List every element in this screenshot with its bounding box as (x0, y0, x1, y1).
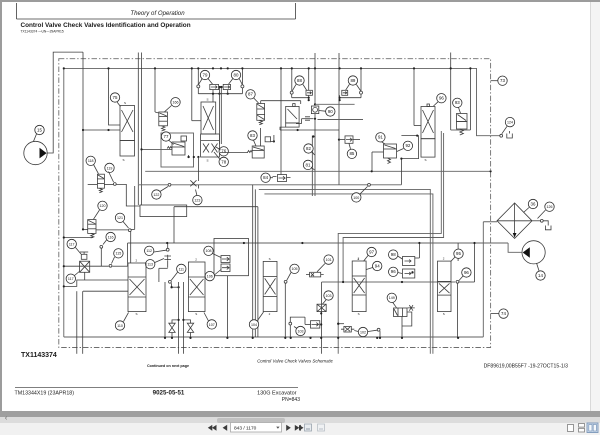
pilot box 118 (88, 183, 98, 185)
drop x76 (76, 291, 78, 354)
svg-text:106: 106 (207, 275, 213, 279)
svg-text:84: 84 (263, 175, 268, 180)
stub (291, 94, 293, 98)
top feed line (64, 68, 500, 135)
svg-text:89: 89 (350, 78, 355, 83)
junction (218, 93, 220, 95)
junction (219, 86, 221, 88)
junction (178, 319, 180, 321)
drop (197, 157, 199, 181)
callout 81 (303, 160, 312, 169)
stub (227, 90, 229, 94)
svg-text:83: 83 (250, 133, 255, 138)
svg-text:PN=843: PN=843 (282, 397, 300, 403)
stub (338, 323, 344, 325)
link (260, 128, 262, 146)
feed y291 (83, 290, 128, 292)
long line x281 (280, 68, 282, 174)
orifice bars (305, 117, 310, 120)
svg-text:74: 74 (501, 311, 506, 316)
callout 89 (348, 76, 357, 85)
junction (337, 323, 339, 325)
leader 110 (124, 313, 129, 322)
callout 111 (177, 264, 186, 273)
port (456, 280, 459, 283)
check valve 102 (341, 326, 354, 332)
junction (82, 129, 84, 131)
box top line (315, 103, 355, 105)
base line 88 (292, 97, 309, 99)
leader 103 (323, 300, 327, 304)
orifice X 123 (190, 180, 196, 186)
callout 108 (204, 246, 213, 255)
svg-text:S: S (136, 312, 138, 316)
svg-text:111: 111 (179, 267, 184, 271)
callout 73 (498, 76, 507, 85)
callout 102 (358, 327, 367, 336)
leader 124 (502, 126, 507, 134)
svg-text:95: 95 (456, 251, 461, 256)
svg-text:82: 82 (306, 146, 311, 151)
drain line (469, 68, 471, 130)
nested work line C (259, 189, 431, 353)
leader 121 (123, 222, 129, 229)
svg-text:103: 103 (298, 329, 304, 333)
junction (314, 118, 316, 120)
long line y184.8 (139, 184, 402, 186)
svg-text:Theory of Operation: Theory of Operation (130, 10, 185, 17)
callout 90 (326, 107, 335, 116)
feed y266 b (112, 265, 127, 267)
check A feed (172, 320, 179, 323)
riser x127 (127, 243, 129, 266)
callout 77 (161, 132, 170, 141)
line to motor (508, 243, 522, 252)
svg-text:130G Excavator: 130G Excavator (257, 391, 297, 397)
callout 119 (105, 163, 114, 172)
check valve A (169, 323, 175, 332)
page bottom divider bar (0, 411, 600, 417)
svg-text:2: 2 (443, 257, 445, 261)
horizontal scrollbar track (0, 417, 600, 423)
svg-text:2: 2 (195, 258, 197, 262)
leader 73 (491, 80, 498, 82)
leader 82 (312, 151, 315, 155)
pilot valve 91 (384, 144, 397, 158)
junction (308, 99, 310, 101)
check valve B (187, 323, 193, 332)
callout 118 (86, 156, 95, 165)
svg-text:98: 98 (391, 252, 396, 257)
spool valve 97 (352, 261, 366, 312)
junction (320, 323, 322, 325)
svg-text:15: 15 (37, 127, 42, 132)
callout 123 (193, 195, 202, 204)
junction (469, 67, 471, 69)
port (100, 245, 103, 248)
callout 103 (296, 326, 305, 335)
base line 89 (340, 97, 361, 99)
leader 91 (382, 142, 386, 144)
leader 85 (349, 144, 351, 149)
reducing valve 118 (97, 174, 104, 188)
stub (379, 331, 381, 338)
junction on tank line (164, 337, 166, 339)
toolbar: prev view icon (305, 424, 312, 431)
main envelope box (63, 68, 65, 337)
junction (63, 285, 65, 287)
junction (337, 323, 339, 325)
callout 166 (171, 98, 180, 107)
pilot line vertical A (137, 53, 139, 185)
leader 94 (366, 268, 372, 270)
callout 110 (115, 321, 124, 330)
svg-text:TX1143374: TX1143374 (21, 352, 57, 359)
junction (227, 93, 229, 95)
toolbar: prev page button (223, 425, 228, 431)
svg-text:117: 117 (69, 242, 75, 246)
leader 116 (103, 240, 107, 245)
junction (291, 67, 293, 69)
svg-text:103: 103 (326, 294, 332, 298)
scrollbar left button (2, 415, 10, 423)
elbow (414, 125, 421, 127)
relief valve 93 (457, 114, 468, 130)
drop x285 (284, 283, 286, 338)
leader 81 (311, 167, 315, 170)
junction (220, 67, 222, 69)
link (159, 267, 168, 269)
spool valve 104 (263, 261, 277, 311)
drop line x321 (321, 282, 323, 354)
line y130 mid (280, 129, 339, 131)
solenoid valve 166 (159, 112, 168, 126)
leader 78 (214, 152, 221, 160)
junction (212, 67, 214, 69)
junction (280, 67, 282, 69)
pilot manifold box (140, 205, 187, 217)
box around 91 (401, 136, 418, 185)
callout 94 (373, 261, 382, 270)
port (168, 183, 171, 186)
stub (167, 261, 169, 268)
shuttle valve 101 (306, 272, 324, 277)
junction (197, 156, 199, 158)
callout 87 (246, 90, 255, 99)
svg-text:85: 85 (349, 151, 354, 156)
junction (371, 170, 373, 172)
svg-text:TX1143374 —UN—29APR15: TX1143374 —UN—29APR15 (21, 30, 64, 34)
spool valve 110 (128, 263, 146, 312)
callout 112 (145, 246, 154, 255)
junction (339, 67, 341, 69)
junction (450, 67, 452, 69)
feed y266 a (64, 265, 109, 267)
leader 126 (538, 210, 546, 219)
check 106 (221, 264, 230, 272)
callout 149 (387, 293, 396, 302)
port (284, 280, 287, 283)
svg-text:115: 115 (116, 252, 122, 256)
leader 77 (169, 140, 174, 145)
link (83, 228, 88, 230)
check assembly 89 (342, 84, 363, 95)
long return line y171 (145, 170, 490, 172)
viewer top edge strip (0, 0, 600, 2)
filter 117 (80, 261, 90, 272)
solenoid 99 (403, 269, 415, 278)
callout 106 (205, 271, 214, 280)
junction (193, 156, 195, 158)
svg-text:113: 113 (147, 263, 153, 267)
line x414 (413, 68, 415, 125)
svg-text:88: 88 (297, 78, 302, 83)
link to spool top (212, 94, 214, 102)
riser x101 (100, 248, 102, 266)
toolbar: page field (231, 423, 282, 433)
pilot line to arm valve (261, 100, 301, 102)
check assembly 80 (223, 79, 244, 90)
leader 117a (76, 248, 82, 255)
junction (243, 242, 245, 244)
solenoid 98 (403, 257, 415, 266)
riser x474 (474, 243, 476, 282)
leader 105 (287, 273, 291, 281)
svg-text:112: 112 (146, 249, 152, 253)
link to tank (543, 221, 548, 226)
junction (301, 242, 303, 244)
junction (82, 228, 84, 230)
drop x308 (308, 68, 310, 90)
callout 96 (389, 267, 398, 276)
svg-text:96: 96 (439, 96, 444, 101)
junction (308, 67, 310, 69)
junction (171, 286, 173, 288)
spring 91 (388, 158, 391, 164)
svg-text:118: 118 (88, 159, 94, 163)
stub (301, 119, 303, 124)
stub (197, 88, 199, 94)
leader 117b (75, 272, 80, 276)
line to port 121 (96, 229, 128, 231)
box line (318, 119, 364, 121)
drain line (450, 53, 452, 131)
junction (107, 129, 109, 131)
callout 122 (152, 190, 161, 199)
check assembly 79 (197, 79, 219, 90)
svg-text:DF89619,00B55F7 -19-27OCT15-1/: DF89619,00B55F7 -19-27OCT15-1/3 (484, 363, 569, 369)
svg-text:93: 93 (455, 100, 460, 105)
riser 121 (134, 186, 136, 229)
junction on tank line (189, 337, 191, 339)
svg-text:843 / 1170: 843 / 1170 (234, 426, 257, 432)
svg-text:S: S (195, 312, 197, 316)
stub (167, 243, 169, 248)
junction (182, 319, 184, 321)
junction (197, 67, 199, 69)
callout 117 (67, 239, 76, 248)
drop x178 (178, 282, 180, 354)
junction (360, 67, 362, 69)
check cross 103 (317, 304, 326, 311)
line to valve 166 (154, 68, 156, 112)
drain link (451, 129, 471, 131)
svg-text:75: 75 (113, 95, 118, 100)
junction (220, 86, 222, 88)
junction (63, 236, 65, 238)
solenoid valve 87 (257, 104, 265, 121)
leader 102 (354, 331, 358, 332)
link to diamond (483, 221, 497, 223)
viewer left edge strip (0, 0, 2, 412)
leader 107 (204, 313, 209, 322)
port (128, 229, 131, 232)
stub (360, 94, 362, 98)
junction (418, 242, 420, 244)
check valve 102a (311, 321, 320, 328)
stub (296, 123, 302, 125)
junction (154, 67, 156, 69)
port (368, 183, 371, 186)
callout 78 (219, 157, 228, 166)
svg-text:117: 117 (68, 277, 74, 281)
spring 83 (247, 151, 252, 153)
stub (197, 185, 199, 189)
callout 92 (403, 141, 412, 150)
svg-text:101: 101 (326, 258, 332, 262)
junction (290, 337, 292, 339)
svg-text:S: S (123, 158, 125, 162)
callout 120 (98, 201, 107, 210)
callout 80 (231, 70, 240, 79)
junction (413, 67, 415, 69)
svg-text:S: S (443, 312, 445, 316)
svg-text:79: 79 (203, 72, 208, 77)
check manifold box (214, 239, 249, 276)
callout 103 (324, 291, 333, 300)
leader 119 (109, 172, 114, 183)
svg-text:149: 149 (389, 296, 395, 300)
junction (312, 135, 314, 137)
drop x165 (164, 282, 166, 338)
junction (400, 158, 402, 160)
leader 74 (491, 313, 499, 315)
leader 92 (397, 149, 404, 152)
long line x315 lower (314, 114, 316, 196)
stub (308, 95, 310, 100)
svg-text:78: 78 (221, 159, 226, 164)
spool valve 107 (188, 262, 205, 312)
drop to port 79 (197, 68, 199, 85)
junction on tank line (284, 337, 286, 339)
svg-text:14: 14 (538, 273, 543, 278)
junction (63, 67, 65, 69)
port (166, 248, 169, 251)
junction (171, 286, 173, 288)
spring 166 (162, 126, 165, 131)
nested work line D (264, 194, 433, 354)
svg-text:92: 92 (405, 143, 410, 148)
stub (260, 101, 262, 104)
port (113, 183, 116, 186)
mid manifold verticals (252, 185, 254, 337)
stub (339, 95, 341, 100)
drop (371, 152, 373, 171)
tank symbol right (545, 226, 551, 230)
link (220, 152, 248, 154)
svg-text:9025-05-51: 9025-05-51 (153, 390, 185, 397)
drop x227 (226, 276, 228, 338)
svg-text:80: 80 (234, 72, 239, 77)
junction on tank line (320, 337, 322, 339)
drop x183 (182, 282, 184, 354)
stub (212, 90, 214, 94)
supply drop (191, 68, 193, 120)
junction (416, 135, 418, 137)
port (500, 134, 503, 137)
leader 96b (459, 276, 463, 281)
svg-text:S: S (425, 158, 427, 162)
callout 93 (453, 98, 462, 107)
orifice 113 (164, 255, 171, 261)
svg-text:S: S (207, 159, 209, 163)
spring 77 (167, 147, 172, 149)
stub (188, 155, 190, 157)
leader 115 (112, 257, 115, 264)
svg-text:105: 105 (292, 267, 298, 271)
riser from port 111 (171, 283, 173, 287)
junction (339, 97, 341, 99)
svg-text:81: 81 (306, 162, 311, 167)
toolbar: first page button (208, 425, 217, 431)
spool valve 95 (438, 261, 452, 312)
leader 166 (165, 106, 172, 112)
hydraulic motor (item 14) (522, 241, 545, 264)
layout icon: facing (active) (587, 423, 598, 433)
callout 14 (536, 271, 545, 280)
header cell left rule (16, 3, 18, 19)
link to spool (192, 120, 201, 122)
step to y130 (280, 127, 286, 130)
svg-text:73: 73 (500, 78, 505, 83)
callout 101 (324, 255, 333, 264)
drop to port 88 (291, 68, 293, 91)
svg-text:2: 2 (269, 312, 271, 316)
callout 82 (304, 144, 313, 153)
callout 117 (66, 274, 75, 283)
junction (107, 67, 109, 69)
svg-text:S: S (124, 101, 126, 105)
leader (368, 330, 377, 331)
orifice line (302, 118, 314, 120)
leader 87 (254, 98, 259, 103)
leader 122 (160, 187, 168, 192)
phantom boundary (dash-dot frame) (59, 59, 491, 348)
callout 105 (290, 264, 299, 273)
callout 116 (106, 232, 115, 241)
stub (418, 243, 420, 258)
junction (339, 99, 341, 101)
link (415, 257, 420, 259)
callout 75 (110, 93, 119, 102)
leader 111 (171, 272, 177, 280)
junction on tank line (401, 337, 403, 339)
port (377, 328, 380, 331)
junction on tank line (379, 337, 381, 339)
leader 149 (393, 303, 397, 308)
toolbar: last page button (295, 425, 304, 431)
junction (312, 135, 314, 137)
